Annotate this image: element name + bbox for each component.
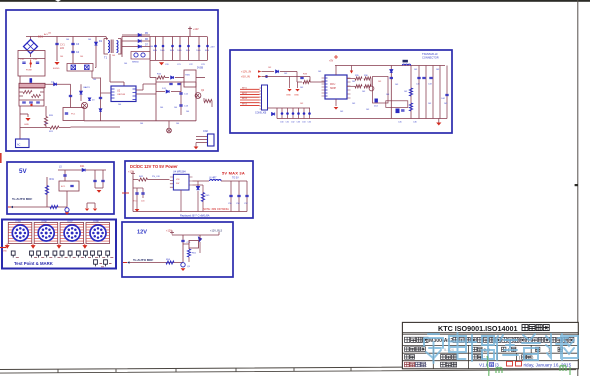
wire 5v top rail (58, 169, 106, 171)
crystal Y1 (396, 109, 400, 114)
wire filter column 2 (162, 37, 164, 61)
resistor R41 blue (409, 103, 412, 111)
wire cap pair drops (136, 188, 138, 198)
svg-text:104: 104 (93, 79, 96, 81)
row4 designer name (441, 355, 446, 360)
resistor network rails (19, 92, 44, 100)
row3 page num label (536, 347, 540, 351)
red node dot (30, 104, 32, 106)
snubber box (63, 108, 84, 121)
zener ZD34 (303, 112, 306, 115)
power cross dcdc (131, 171, 135, 175)
resistor R31 blue (45, 186, 48, 195)
wire gnd dcdc stem (136, 198, 138, 209)
svg-text:103: 103 (300, 103, 303, 105)
capacitor out col 1 (230, 181, 232, 212)
resistor R40 blue (409, 88, 412, 96)
wire secondary right leg (121, 37, 123, 58)
wire v391 column (390, 66, 392, 119)
capacitor C12 body (171, 45, 174, 48)
sheet right border line (577, 0, 579, 376)
test point TP1 (11, 251, 15, 255)
svg-text:GND: GND (294, 95, 299, 97)
capacitor C62 (70, 185, 73, 186)
svg-text:5V MAX 3A: 5V MAX 3A (222, 171, 245, 176)
X capacitor CX3 (71, 65, 76, 70)
diode D21 (82, 168, 85, 171)
svg-text:CONNECTOR: CONNECTOR (422, 55, 439, 59)
resistor R25 (204, 99, 212, 102)
diode D9 (171, 76, 174, 79)
svg-text:104: 104 (48, 33, 51, 35)
connector J4 barrel (90, 225, 106, 241)
svg-text:KEY3: KEY3 (242, 98, 247, 100)
svg-text:104: 104 (80, 56, 83, 58)
svg-text:104: 104 (150, 46, 153, 48)
zener ZD40 (375, 99, 378, 103)
row3 label (405, 347, 410, 352)
connector J2 barrel (38, 225, 54, 241)
wire ladder col 1 (281, 108, 283, 119)
X capacitor box (67, 64, 93, 72)
diode D8b circle (141, 53, 145, 57)
entry arrow (11, 206, 13, 208)
svg-text:OB2538: OB2538 (117, 94, 126, 96)
capacitor C41 (417, 77, 420, 78)
label TP6 (65, 256, 68, 258)
wire column x433 (432, 66, 434, 119)
svg-text:1000: 1000 (160, 50, 164, 52)
svg-text:+12V: +12V (166, 229, 172, 232)
diode D42 (196, 186, 199, 189)
red entry dash dcdc (122, 192, 129, 194)
capacitor C15 body (198, 45, 201, 48)
wire primary to ic (110, 81, 124, 83)
entry arrow 12v (127, 261, 129, 263)
svg-text:MCU: MCU (330, 84, 336, 86)
capacitor C71 (181, 240, 184, 241)
svg-text:C35: C35 (308, 122, 311, 124)
wire gnd stub a (289, 77, 291, 89)
svg-text:103: 103 (284, 73, 287, 75)
filter box divider (18, 58, 45, 60)
svg-text:VIN: VIN (176, 179, 180, 181)
label tp14 marks (100, 264, 112, 267)
svg-text:104: 104 (160, 107, 163, 109)
wire 12v rail stub R (218, 232, 220, 235)
test point TP3 (37, 251, 41, 255)
label TP12 (110, 256, 113, 258)
diode D7 (138, 45, 141, 48)
wire r25 stub (203, 98, 205, 101)
svg-text:GND: GND (286, 95, 291, 97)
svg-text:5V: 5V (19, 168, 27, 175)
capacitor C9 (69, 95, 72, 96)
row3 version label (473, 347, 477, 351)
transistor Q8 body (189, 241, 199, 249)
sheet bottom zone tick (57, 369, 59, 373)
wire ladder col 4 (298, 108, 300, 119)
resistor R35 (355, 77, 362, 80)
wire u3 top stub (335, 66, 337, 76)
label TP1 (16, 256, 19, 258)
resistor R21 (50, 126, 59, 129)
transistor Q1 (81, 102, 87, 108)
capacitor C22 (177, 83, 180, 84)
wire dcdc top row (133, 179, 138, 181)
transistor Q2 (195, 93, 201, 99)
connector CON9 (262, 85, 268, 110)
watermark glyphs (424, 333, 578, 363)
title block row rules (402, 345, 578, 360)
label TP10 (95, 256, 98, 258)
ground CN2 (194, 147, 199, 150)
wire secondary return (45, 83, 71, 85)
diode D5 (138, 33, 141, 36)
wire pi left (86, 203, 88, 208)
capacitor C63 (93, 180, 96, 181)
svg-text:104: 104 (174, 107, 177, 109)
connector J2 gnd arrow (31, 244, 35, 249)
wire d9 to reg (175, 77, 184, 79)
resistor R1 (23, 90, 32, 93)
svg-text:104: 104 (176, 123, 179, 125)
svg-text:103: 103 (300, 87, 303, 89)
svg-text:To AUTO BKF: To AUTO BKF (133, 258, 153, 262)
svg-text:103: 103 (436, 69, 439, 71)
ground pi left (85, 209, 89, 212)
wire column x440 (439, 66, 441, 119)
svg-text:SW: SW (176, 183, 179, 185)
X capacitor CX4 (85, 65, 90, 70)
svg-text:103: 103 (395, 84, 398, 86)
capacitor C8 (36, 102, 40, 103)
svg-text:222: 222 (60, 47, 65, 50)
title block outer frame (402, 322, 578, 368)
svg-text:TSUMV26-LF: TSUMV26-LF (422, 52, 438, 56)
svg-text:CON9_KB: CON9_KB (255, 112, 267, 115)
wire column x447 (446, 66, 448, 119)
wire R31 column (46, 177, 48, 207)
wire q8 to c71 (188, 257, 190, 262)
wire transformer top left (106, 37, 107, 41)
wire r51 top (188, 248, 190, 249)
wire l6 out (221, 180, 247, 182)
resistor R32 blue (50, 205, 58, 208)
svg-text:KTC ISO9001.ISO14001: KTC ISO9001.ISO14001 (438, 324, 518, 333)
controller U3 (325, 75, 347, 99)
wire dcdc left rail (132, 175, 134, 211)
svg-text:103: 103 (386, 94, 389, 96)
converter U4 left pins (170, 177, 174, 187)
label TP4 (49, 256, 52, 258)
svg-text:FUSE: FUSE (26, 70, 32, 72)
connector J2 frame (34, 223, 58, 244)
wire fb column (202, 185, 204, 212)
connector J1 barrel (12, 225, 28, 241)
zener ZD30 (281, 112, 284, 115)
svg-text:1000: 1000 (153, 50, 157, 52)
wire ladder top (277, 107, 310, 109)
converter U4 (173, 174, 189, 190)
label TP3 (41, 256, 44, 258)
wire mid column C (100, 78, 102, 121)
svg-text:CON7: CON7 (67, 221, 73, 223)
controller U3 left pins (322, 78, 326, 96)
capacitor C13 body (179, 45, 182, 48)
wire mid drop (66, 191, 68, 207)
ground aux right (97, 190, 102, 193)
svg-text:103: 103 (444, 103, 447, 105)
zener ZD32 (292, 112, 295, 115)
svg-text:R31: R31 (50, 178, 55, 181)
wire 5vsb feed (149, 60, 151, 78)
capacitor C21 (169, 83, 172, 84)
wire cn2 gnd stub (195, 143, 197, 147)
svg-text:TO 5V: TO 5V (232, 177, 239, 179)
wire bridge top stub (30, 37, 32, 41)
svg-text:CN2: CN2 (203, 130, 208, 133)
power flag +12V (188, 27, 192, 37)
wire R20 bottom (45, 126, 47, 128)
node dot 5v (265, 75, 268, 78)
label TP8 (81, 256, 84, 258)
diode D30 (276, 70, 279, 73)
sheet top border line (0, 0, 590, 2)
transformer T1 frame (104, 39, 121, 55)
capacitor CY1 (55, 43, 58, 44)
capacitor C13 (179, 105, 182, 106)
wire top rail box2 (335, 65, 445, 67)
wire fb row (193, 184, 204, 186)
wire bottom rail box2 (336, 118, 447, 120)
capacitor C4 (71, 51, 74, 52)
svg-text:103: 103 (404, 91, 407, 93)
diode D32 (272, 112, 275, 115)
power cross 12v (170, 230, 174, 234)
capacitor C52 dcdc (141, 193, 144, 194)
connector J1 pin stripes (8, 224, 32, 241)
label TP11 (102, 256, 105, 258)
wire R21 out (59, 127, 71, 129)
test point TP13 (94, 260, 98, 264)
dcdc block outline (125, 161, 253, 218)
wire pi right (94, 203, 96, 208)
wire gnd stub b (297, 82, 299, 88)
svg-text:+12V_IN: +12V_IN (241, 70, 251, 74)
sheet bottom zone tick (235, 368, 237, 372)
capacitor C61 (63, 175, 66, 176)
connector CN1 (16, 139, 30, 148)
wire keypad 2 (240, 91, 260, 93)
connector J1 frame (8, 223, 32, 244)
input arrow +5V (258, 75, 261, 77)
connector CN2 pins (196, 137, 208, 143)
test point TP12 (106, 251, 110, 255)
label TP9 (88, 256, 91, 258)
transformer T1 secondary winding (117, 41, 119, 53)
svg-text::: : (424, 347, 425, 352)
transistor Q8 arrow (198, 236, 202, 242)
capacitor C42 (422, 77, 425, 78)
wire right v1 (180, 82, 182, 115)
connector J3 barrel (64, 225, 80, 241)
wire column x426 (425, 66, 427, 119)
controller U3 right pins (347, 78, 351, 98)
diode D33 red (350, 71, 353, 74)
wire Y-cap drop (56, 37, 58, 62)
svg-text:1000: 1000 (177, 50, 181, 52)
transistor Q5 (181, 263, 185, 267)
wire ic right 2 (136, 93, 156, 95)
svg-text:EGND: EGND (53, 68, 60, 70)
main board block outline (230, 50, 452, 133)
svg-text:GND: GND (3, 251, 8, 253)
connector CN2 (208, 134, 215, 146)
test point TP6 (60, 251, 64, 255)
wire cap pair top (133, 187, 143, 189)
svg-text:+12V: +12V (128, 169, 134, 173)
ground q5 (181, 268, 186, 271)
wire q8 down (199, 242, 201, 253)
svg-text:1000: 1000 (186, 50, 190, 52)
connector J2 pins (40, 227, 52, 239)
ground left (25, 118, 30, 121)
capacitor C44 (445, 94, 448, 95)
resistor network box (19, 88, 44, 106)
wire keypad 5 (240, 99, 260, 101)
input arrow +12V (258, 70, 261, 72)
wire r41 to ic (148, 179, 170, 181)
test point TP11 (98, 251, 102, 255)
wire mid column A (70, 84, 72, 107)
wire r37 row (347, 85, 355, 87)
wire gnd stub (20, 113, 28, 115)
wire r15 to d9 (165, 77, 169, 79)
svg-text:103: 103 (352, 103, 355, 105)
svg-text:Replaced: BY* C+8A1/8A: Replaced: BY* C+8A1/8A (180, 213, 210, 217)
ground bottom right (436, 123, 441, 126)
resistor R15 (157, 76, 165, 79)
svg-text:103: 103 (268, 67, 271, 69)
sheet right border zone tick (575, 184, 578, 186)
svg-text:+5V_IN: +5V_IN (241, 75, 250, 79)
wire 12v in (262, 71, 275, 73)
wire keypad 7 (240, 104, 260, 106)
chassis ground symbol (167, 128, 172, 133)
sheet bottom border zone strip (0, 366, 576, 373)
resistor R53 blue (166, 261, 174, 264)
resistor R41 dcdc (139, 178, 148, 181)
wire right join (95, 187, 103, 189)
svg-text:1000: 1000 (170, 50, 174, 52)
wire 12v branch down (296, 72, 298, 83)
sub block outline (373, 77, 389, 104)
wire ladder col 2 (287, 108, 289, 119)
diode branch 3 (122, 46, 150, 48)
zener Z2 (79, 91, 82, 94)
wire gnd stem br (438, 119, 440, 123)
svg-text:NOTE: 30M OR 5W/3A: NOTE: 30M OR 5W/3A (203, 208, 229, 211)
diode D6 (138, 39, 141, 42)
zener ZD35 (308, 112, 311, 115)
resistor R20 (44, 117, 47, 126)
svg-text:Test Point & MARK: Test Point & MARK (14, 261, 54, 266)
svg-text:CON8: CON8 (93, 221, 99, 223)
capacitor C43 (429, 77, 432, 78)
row2 label (405, 337, 410, 342)
svg-text:7805: 7805 (185, 75, 191, 77)
wire right drop a (94, 170, 96, 188)
capacitor C51 dcdc (135, 193, 138, 194)
wire 5vsb out (196, 77, 205, 79)
wire filter column 3 (172, 37, 174, 61)
svg-text:BD1: BD1 (38, 35, 44, 39)
row5 red stamp boxes (507, 361, 513, 366)
diode D1 (94, 42, 97, 45)
svg-text:C34: C34 (302, 122, 305, 124)
wire 12v bottom feed (128, 262, 183, 264)
ground CY1 (54, 62, 59, 65)
svg-text:D21: D21 (80, 165, 85, 168)
connector J4 pins (92, 227, 104, 239)
wire dcdc bottom rail (133, 211, 247, 213)
capacitor CX1 (22, 62, 25, 63)
wire comb feed (149, 37, 151, 61)
title block header rule (402, 333, 578, 335)
regulator U5 box (184, 70, 196, 87)
zener ZD33 (297, 112, 300, 115)
resistor R45 blue (201, 193, 204, 202)
wire 5v branch down (309, 77, 311, 83)
wire keypad 3 (240, 94, 260, 96)
svg-text:SN8P: SN8P (330, 88, 336, 90)
svg-text:To AUTO BKF: To AUTO BKF (12, 197, 32, 201)
capacitor C64 (101, 180, 104, 181)
red entry dash 12v (123, 262, 127, 264)
svg-text:1000: 1000 (205, 50, 209, 52)
wire c71 column (182, 235, 184, 262)
wire q7 link (370, 79, 372, 87)
sheet bottom zone tick (350, 367, 352, 371)
svg-text:103: 103 (428, 103, 431, 105)
wire ladder col 5 (303, 108, 305, 119)
svg-text:104: 104 (112, 55, 115, 57)
wire bridge bottom stub (30, 54, 32, 58)
wire AC top rail left (26, 36, 106, 38)
svg-text:L6 4R7: L6 4R7 (209, 177, 217, 179)
wire right drop b (102, 170, 104, 188)
row3 pages label (502, 347, 506, 351)
wire cap box to diode (95, 67, 96, 69)
wire primary down (109, 54, 111, 82)
wire d30 out (280, 71, 297, 73)
controller U2 (111, 86, 136, 102)
resistor R37 (355, 85, 362, 88)
svg-text:SR360: SR360 (132, 62, 139, 64)
svg-text:104: 104 (186, 111, 189, 113)
inductor L6 (210, 180, 222, 181)
wire q1 to ic (101, 92, 112, 94)
wire column x419 (418, 66, 420, 119)
transistor Q7 (369, 86, 374, 91)
row4 check label (473, 355, 478, 360)
connector J2 pin stripes (34, 224, 58, 241)
converter U4 right pins (189, 177, 193, 185)
sheet bottom zone tick (293, 368, 295, 372)
svg-text:104: 104 (140, 123, 143, 125)
capacitor C7 (29, 102, 33, 103)
